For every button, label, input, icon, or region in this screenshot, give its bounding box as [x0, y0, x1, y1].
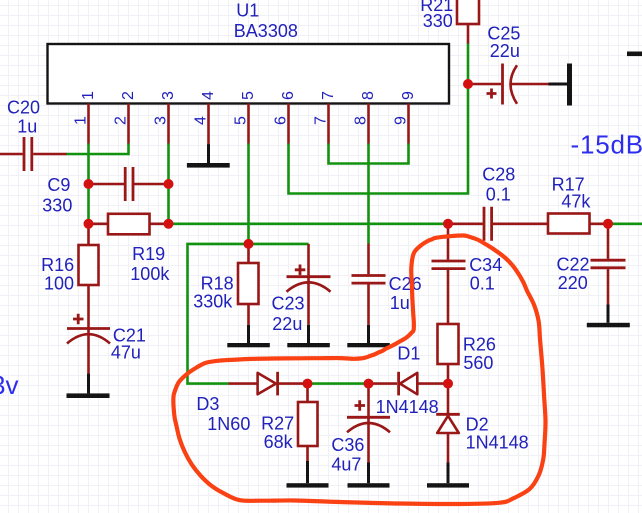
resistor R19 100k [89, 214, 171, 284]
junction node R19 left [84, 219, 94, 229]
capacitor C9 330 [42, 167, 168, 216]
svg-text:1u: 1u [390, 293, 410, 313]
resistor R21 330 (cut off at top) [420, 0, 479, 44]
ground bar at top right edge (cut off) [627, 52, 642, 57]
wire pin7-pin9 bus [329, 144, 409, 164]
svg-text:U1: U1 [236, 0, 259, 20]
capacitor C26 1u [352, 244, 422, 325]
ground under R27 [287, 461, 329, 488]
ground under R18 [227, 325, 269, 348]
svg-text:220: 220 [558, 273, 588, 293]
diode D2 1N4148 (pointing up, cathode top) [436, 384, 528, 463]
resistor R18 330k [193, 244, 258, 325]
ground under C23 [287, 325, 330, 348]
svg-text:9: 9 [393, 116, 410, 125]
pin 9 of U1 [393, 91, 418, 145]
svg-text:1N60: 1N60 [207, 414, 250, 434]
svg-text:7: 7 [313, 116, 330, 125]
wire long row from C9 node to C28 node [169, 223, 449, 226]
svg-text:47u: 47u [111, 343, 141, 363]
svg-text:R27: R27 [261, 414, 294, 434]
svg-text:3: 3 [153, 116, 170, 125]
capacitor C36 4u7 (polarized) [331, 384, 390, 475]
wire pin2 to C20 row [66, 144, 129, 155]
resistor R26 560 [438, 324, 496, 384]
wire pin1 down to C9/R19 nodes [87, 144, 90, 224]
svg-text:100: 100 [44, 273, 74, 293]
ground under C21 [67, 374, 110, 398]
wire R17 node to right edge [608, 223, 642, 226]
ground under D2 [427, 463, 469, 488]
capacitor C25 22u (polarized, horizontal) [468, 23, 549, 104]
ground right of C25 [549, 64, 573, 106]
svg-text:3: 3 [160, 91, 177, 100]
pin 1 of U1 [73, 91, 98, 145]
svg-text:22u: 22u [490, 41, 520, 61]
wire pin5 down to R18 node [247, 144, 250, 244]
IC U1 BA3308 body [48, 0, 450, 103]
svg-text:0.1: 0.1 [470, 274, 495, 294]
pin 6 of U1 [273, 91, 298, 145]
pin 2 of U1 [113, 91, 138, 145]
svg-text:R18: R18 [201, 274, 234, 294]
wire pin8 down to C26 [367, 144, 370, 244]
diode D3 1N60 [196, 372, 307, 434]
wire R18 row and down to D3 row [188, 244, 309, 384]
svg-text:1u: 1u [17, 116, 37, 136]
capacitor C34 0.1 [432, 224, 503, 324]
resistor R17 47k [548, 175, 608, 234]
svg-text:1: 1 [80, 91, 97, 100]
junction node R17/C22 [603, 219, 613, 229]
pin 4 of U1 [193, 91, 218, 145]
svg-text:100k: 100k [130, 264, 170, 284]
svg-text:560: 560 [463, 353, 493, 373]
svg-text:47k: 47k [561, 192, 591, 212]
svg-text:7: 7 [320, 91, 337, 100]
wire pin6 to R21/C25 node [289, 43, 469, 194]
svg-text:330k: 330k [193, 292, 233, 312]
svg-text:68k: 68k [264, 432, 294, 452]
pin 5 of U1 [233, 91, 258, 145]
capacitor C20 1u [0, 97, 67, 171]
svg-text:5: 5 [233, 116, 250, 125]
svg-text:3v: 3v [0, 370, 18, 400]
pin 7 of U1 [313, 91, 338, 145]
capacitor C28 0.1 [448, 165, 548, 241]
svg-text:4: 4 [193, 116, 210, 125]
svg-text:1N4148: 1N4148 [466, 433, 529, 453]
pin 3 of U1 [153, 91, 178, 145]
ground at pin 4 [187, 144, 230, 167]
svg-text:5: 5 [240, 91, 257, 100]
wire between D3 node and C36 node [308, 382, 369, 385]
svg-text:C26: C26 [389, 274, 422, 294]
junction node D1/D2/R26 [443, 379, 453, 389]
svg-text:D3: D3 [196, 394, 219, 414]
svg-text:22u: 22u [272, 314, 302, 334]
svg-text:2: 2 [120, 91, 137, 100]
resistor R27 68k [261, 384, 317, 461]
svg-text:1: 1 [73, 116, 90, 125]
ground under C36 [348, 463, 390, 488]
junction node C9 left [84, 179, 94, 189]
svg-text:1N4148: 1N4148 [376, 397, 439, 417]
svg-text:6: 6 [273, 116, 290, 125]
ground under C22 [587, 305, 630, 328]
svg-text:C9: C9 [47, 175, 70, 195]
svg-text:BA3308: BA3308 [234, 21, 298, 41]
svg-text:8: 8 [353, 116, 370, 125]
svg-text:C22: C22 [557, 255, 590, 275]
svg-text:C28: C28 [482, 165, 515, 185]
svg-text:R26: R26 [463, 335, 496, 355]
svg-text:R19: R19 [132, 244, 165, 264]
ground under C26 [347, 325, 390, 348]
svg-text:8: 8 [360, 91, 377, 100]
junction node R18 top [244, 239, 254, 249]
svg-text:330: 330 [42, 196, 72, 216]
junction node R21/C25 [463, 79, 473, 89]
svg-text:9: 9 [400, 91, 417, 100]
svg-text:-15dB: -15dB [571, 130, 642, 160]
junction node R19 right [164, 219, 174, 229]
svg-text:0.1: 0.1 [486, 185, 511, 205]
wire pin3 down to C9/R19 nodes [167, 144, 170, 224]
junction node D3/R27 [303, 379, 313, 389]
junction node C28/C34 [443, 219, 453, 229]
diode D1 1N4148 (pointing left) [369, 344, 449, 418]
svg-text:6: 6 [280, 91, 297, 100]
svg-text:R16: R16 [41, 255, 74, 275]
svg-text:C20: C20 [7, 97, 40, 117]
capacitor C22 220 [557, 224, 626, 305]
resistor R16 100 [41, 224, 98, 329]
pin 8 of U1 [353, 91, 378, 145]
svg-text:4u7: 4u7 [331, 455, 361, 475]
svg-text:D1: D1 [397, 344, 420, 364]
junction node C36/D1 [364, 379, 374, 389]
svg-text:C34: C34 [469, 255, 502, 275]
svg-text:D2: D2 [466, 415, 489, 435]
svg-text:2: 2 [113, 116, 130, 125]
freehand annotation loop (orange) [173, 235, 545, 504]
svg-text:4: 4 [200, 91, 217, 100]
capacitor C21 47u (polarized) [67, 314, 146, 376]
junction node C9 right [164, 179, 174, 189]
svg-text:C23: C23 [272, 294, 305, 314]
svg-text:C36: C36 [331, 435, 364, 455]
svg-text:330: 330 [423, 11, 453, 31]
capacitor C23 22u (polarized) [272, 244, 331, 334]
